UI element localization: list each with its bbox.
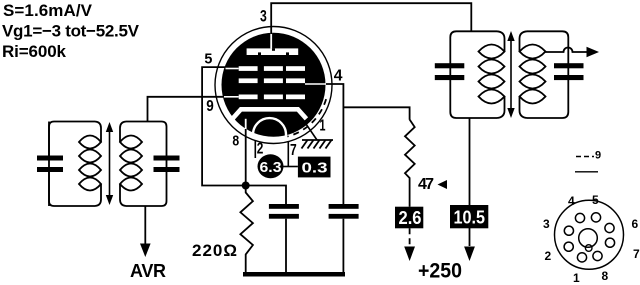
svg-text:9: 9: [206, 98, 214, 115]
chassis hatching: [302, 140, 334, 149]
svg-text:8: 8: [602, 269, 609, 283]
pentode internal structure (black): [222, 33, 326, 137]
anode plate (white bar): [247, 48, 299, 55]
node junction dot: [242, 182, 250, 190]
ground bus: [243, 272, 345, 277]
grid g1 row: [239, 95, 305, 100]
socket pin 9 hole: [585, 245, 592, 252]
tube socket outline: [555, 200, 624, 269]
svg-text:0.3: 0.3: [302, 160, 328, 177]
svg-text:47: 47: [418, 176, 434, 193]
cathode (white bracket): [232, 109, 306, 119]
svg-text:1: 1: [573, 271, 580, 285]
svg-text:6: 6: [632, 217, 639, 231]
anode supply wire from T2 primary bottom: [469, 118, 471, 246]
output wire with crossover hop: [546, 48, 589, 53]
svg-text:3: 3: [260, 7, 267, 26]
svg-text:Ri=600k: Ri=600k: [2, 42, 67, 61]
svg-text:3: 3: [543, 217, 550, 231]
anode wire pin 3 to top rail: [271, 3, 471, 34]
svg-text:4: 4: [334, 67, 343, 84]
g1 lead inside tube (white): [224, 96, 239, 98]
capacitor across T2 secondary: [554, 63, 584, 80]
heater pin 2 lead: [254, 140, 256, 158]
socket center spigot: [579, 229, 598, 248]
wire AVR lead: [144, 206, 146, 245]
capacitor across T2 primary: [435, 63, 465, 80]
socket pin holes: [564, 213, 615, 262]
socket legend dashed line 9: [576, 156, 594, 158]
pentode tube envelope: [215, 27, 332, 144]
cathode bypass capacitor: [269, 204, 299, 219]
current label 10.5: [450, 205, 488, 228]
svg-text:8: 8: [232, 133, 239, 150]
g2 lead inside tube (white): [305, 83, 326, 85]
svg-text:2.6: 2.6: [399, 208, 422, 228]
svg-text:2: 2: [257, 140, 264, 157]
svg-text:10.5: 10.5: [454, 208, 486, 228]
screen grid wire pin 4 down: [326, 84, 343, 204]
svg-text:5: 5: [204, 51, 212, 68]
cathode wire pin 8 down to node: [245, 129, 247, 186]
output arrow: [587, 47, 600, 57]
IF transformer T1 primary winding: [49, 122, 101, 207]
socket legend solid line: [575, 171, 598, 173]
cathode lead inside tube (white, pin 8): [245, 119, 247, 130]
anode lead inside tube (pin 3): [270, 33, 272, 48]
IF transformer T2 primary winding: [450, 31, 504, 118]
svg-text:220Ω: 220Ω: [192, 241, 237, 260]
svg-text:AVR: AVR: [130, 261, 166, 281]
tuning arrow between T1 windings: [106, 122, 113, 205]
heater current label 0.3: [298, 157, 331, 178]
arrow to +250 (right): [464, 247, 475, 262]
wire T1 secondary top to grid g1: [148, 97, 224, 122]
arrow to +250 (left): [404, 247, 415, 262]
heater arc (white): [253, 118, 286, 136]
heater pin 7 lead: [287, 141, 289, 167]
wire screen to dropper resistor: [343, 107, 409, 119]
svg-text:S=1.6mA/V: S=1.6mA/V: [3, 1, 93, 20]
AVR arrow: [140, 244, 151, 258]
adjustment arrow marker: [438, 180, 448, 189]
svg-text:7: 7: [290, 142, 297, 159]
internal shield dashed arc: [287, 99, 326, 136]
grid g2 row: [239, 78, 305, 83]
screen bypass capacitor: [329, 204, 359, 219]
svg-text:6.3: 6.3: [260, 159, 282, 176]
svg-text:2: 2: [545, 249, 552, 263]
resistor 220 ohm: [240, 186, 253, 274]
svg-text:4: 4: [568, 194, 575, 208]
capacitor across T1 primary: [37, 122, 63, 207]
current label 2.6: [395, 207, 423, 229]
grid g3 row: [239, 66, 305, 71]
IF transformer T2 secondary winding: [520, 31, 569, 118]
capacitor across T1 secondary: [154, 156, 180, 173]
tuning arrow between T2 windings: [507, 31, 514, 118]
svg-text:1: 1: [320, 118, 326, 135]
anode bar speckles: [258, 48, 289, 55]
pin 1 lead to chassis: [305, 123, 317, 141]
wire 6.3 to 0.3: [283, 166, 298, 168]
wire node to cathode bypass capacitor: [246, 186, 286, 205]
svg-text:Vg1=−3 tot−52.5V: Vg1=−3 tot−52.5V: [2, 22, 140, 41]
resistor 47k screen dropper: [405, 120, 415, 207]
svg-text:7: 7: [633, 247, 640, 261]
IF transformer T1 secondary winding: [120, 122, 167, 207]
wire g3 (pin 5) to cathode node: [202, 67, 246, 185]
svg-text:5: 5: [592, 193, 599, 207]
svg-text:+250: +250: [418, 260, 462, 283]
svg-text:9: 9: [595, 150, 601, 162]
heater voltage label 6.3: [258, 154, 284, 178]
dashed wire below 2.6: [409, 228, 411, 246]
g3 lead inside tube (white): [226, 68, 239, 70]
